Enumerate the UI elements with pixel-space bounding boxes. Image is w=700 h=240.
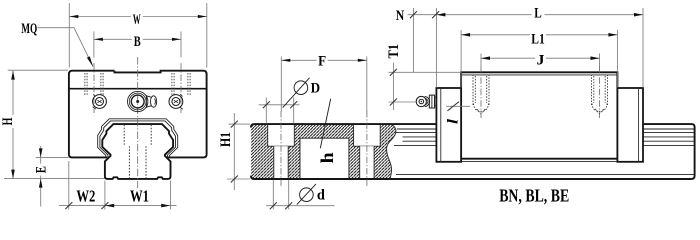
block cavity line front (98, 119, 178, 158)
svg-text:L: L (534, 6, 542, 22)
bottom extension line long (4, 178, 105, 180)
centerline hole left front (93, 63, 95, 113)
rail hidden counterbore front (124, 125, 151, 179)
grease nipple front (128, 91, 157, 111)
dim N L extension lines (413, 8, 643, 88)
rail right end (643, 124, 695, 179)
rail side lines right of block (643, 129, 695, 145)
grease nipple side (416, 95, 436, 108)
seal line left plate (440, 88, 442, 162)
label T1 (386, 43, 402, 60)
dim W2 W1 extension lines (69, 161, 171, 210)
rail bottom chamfer line side (396, 173, 695, 175)
centerline tapped hole right (599, 66, 601, 118)
dim phid extension lines (273, 180, 288, 210)
end cap screw left (93, 95, 107, 110)
dim H1 extension lines (227, 124, 250, 179)
label L1 (530, 32, 546, 44)
tick phiD right (290, 101, 297, 108)
label B (132, 35, 143, 48)
end plate left side (436, 88, 461, 162)
dim F extension lines (281, 57, 367, 112)
seal line front (100, 121, 176, 158)
dim H line (12, 71, 14, 179)
tapped hole right side view (592, 75, 608, 114)
dim F line (281, 59, 367, 61)
rail section hatch (251, 124, 396, 179)
label H (0, 115, 16, 128)
arrows W1 (105, 204, 114, 208)
svg-text:d: d (317, 188, 326, 204)
end cap screw right (169, 94, 183, 109)
dim phiD line (259, 104, 300, 106)
label E (34, 164, 50, 176)
svg-text:E: E (34, 166, 50, 173)
bolt hole left section (274, 146, 288, 178)
label J (535, 53, 546, 65)
body chamfer line side (461, 74, 617, 76)
dim H1 line (233, 113, 235, 190)
wavy break line (387, 124, 396, 179)
tick H1 top (231, 121, 238, 128)
svg-text:N: N (396, 8, 405, 24)
label h (317, 152, 337, 163)
tick phid right (285, 202, 292, 209)
svg-text:W1: W1 (130, 187, 149, 206)
dim T1 line (392, 63, 394, 111)
dim L1 line (461, 34, 617, 36)
dim L1 extension lines (461, 30, 617, 88)
tapped hole left side view (473, 75, 489, 114)
block outline front (69, 71, 207, 158)
svg-text:F: F (318, 53, 326, 69)
label phi d (300, 188, 314, 202)
label phi D (294, 81, 308, 95)
dim E line (40, 146, 42, 207)
svg-text:H1: H1 (218, 132, 234, 147)
svg-text:W: W (133, 12, 141, 28)
dim l line (446, 105, 470, 107)
top tapped hole right front (172, 73, 190, 96)
svg-text:W2: W2 (76, 187, 95, 206)
rail top edge section (251, 124, 437, 127)
dim phid line (266, 205, 335, 207)
svg-text:B: B (134, 34, 141, 50)
svg-text:D: D (311, 81, 321, 97)
counterbore hole right section (354, 124, 381, 147)
dim N L line (408, 14, 644, 16)
counterbore hole left section (268, 124, 295, 147)
svg-text:H: H (0, 117, 16, 125)
tick H1 bottom (231, 176, 238, 183)
centerline hole right section (366, 111, 368, 188)
label F (317, 54, 328, 66)
dim B extension lines (94, 32, 181, 58)
top tapped hole left front (85, 73, 103, 96)
centerline middle front (137, 57, 139, 188)
center white zone h (300, 138, 349, 178)
svg-text:h: h (317, 152, 337, 163)
block body side (461, 72, 617, 158)
tick N right (432, 11, 439, 18)
svg-text:T1: T1 (386, 44, 402, 59)
bolt hole right section (360, 146, 374, 178)
block face line front (69, 88, 207, 90)
tick T1 top (390, 69, 397, 76)
tick N left (410, 11, 417, 18)
tick phiD left (263, 101, 270, 108)
seal line right plate (638, 88, 640, 162)
centerline hole right front (180, 63, 182, 113)
label L (532, 7, 545, 19)
tick l (448, 102, 460, 111)
label W (131, 12, 143, 25)
centerline tapped hole left (480, 66, 482, 118)
tick phid left (270, 202, 277, 209)
dim E extension (36, 156, 69, 158)
svg-text:J: J (537, 52, 546, 68)
dim W line (69, 16, 207, 18)
rail profile front (102, 124, 173, 179)
label l italic (445, 118, 461, 124)
rail side lines left of block (394, 129, 436, 145)
dim H extension top (8, 69, 68, 71)
arrows L (436, 13, 445, 17)
dim J extension lines (481, 54, 600, 72)
svg-text:BN, BL, BE: BN, BL, BE (499, 185, 569, 205)
dim T1 extension lines (389, 72, 462, 102)
svg-text:L1: L1 (531, 31, 545, 47)
tick W2 right (101, 202, 108, 209)
dim J line (481, 57, 600, 59)
tick T1 bottom (390, 99, 397, 106)
MQ leader (38, 28, 93, 67)
dim W2 W1 line (59, 205, 177, 207)
end plate right side (617, 88, 643, 162)
rail bottom edge (251, 176, 692, 179)
centerline hole left section (280, 111, 282, 188)
leader h (320, 99, 330, 149)
dim W extension lines (69, 3, 207, 68)
under body seal line (461, 160, 617, 162)
svg-text:MQ: MQ (21, 21, 37, 37)
tick W2 left (65, 202, 72, 209)
dim B line (94, 38, 181, 40)
label H1 (218, 131, 234, 148)
dim phiD extension lines (266, 98, 293, 124)
